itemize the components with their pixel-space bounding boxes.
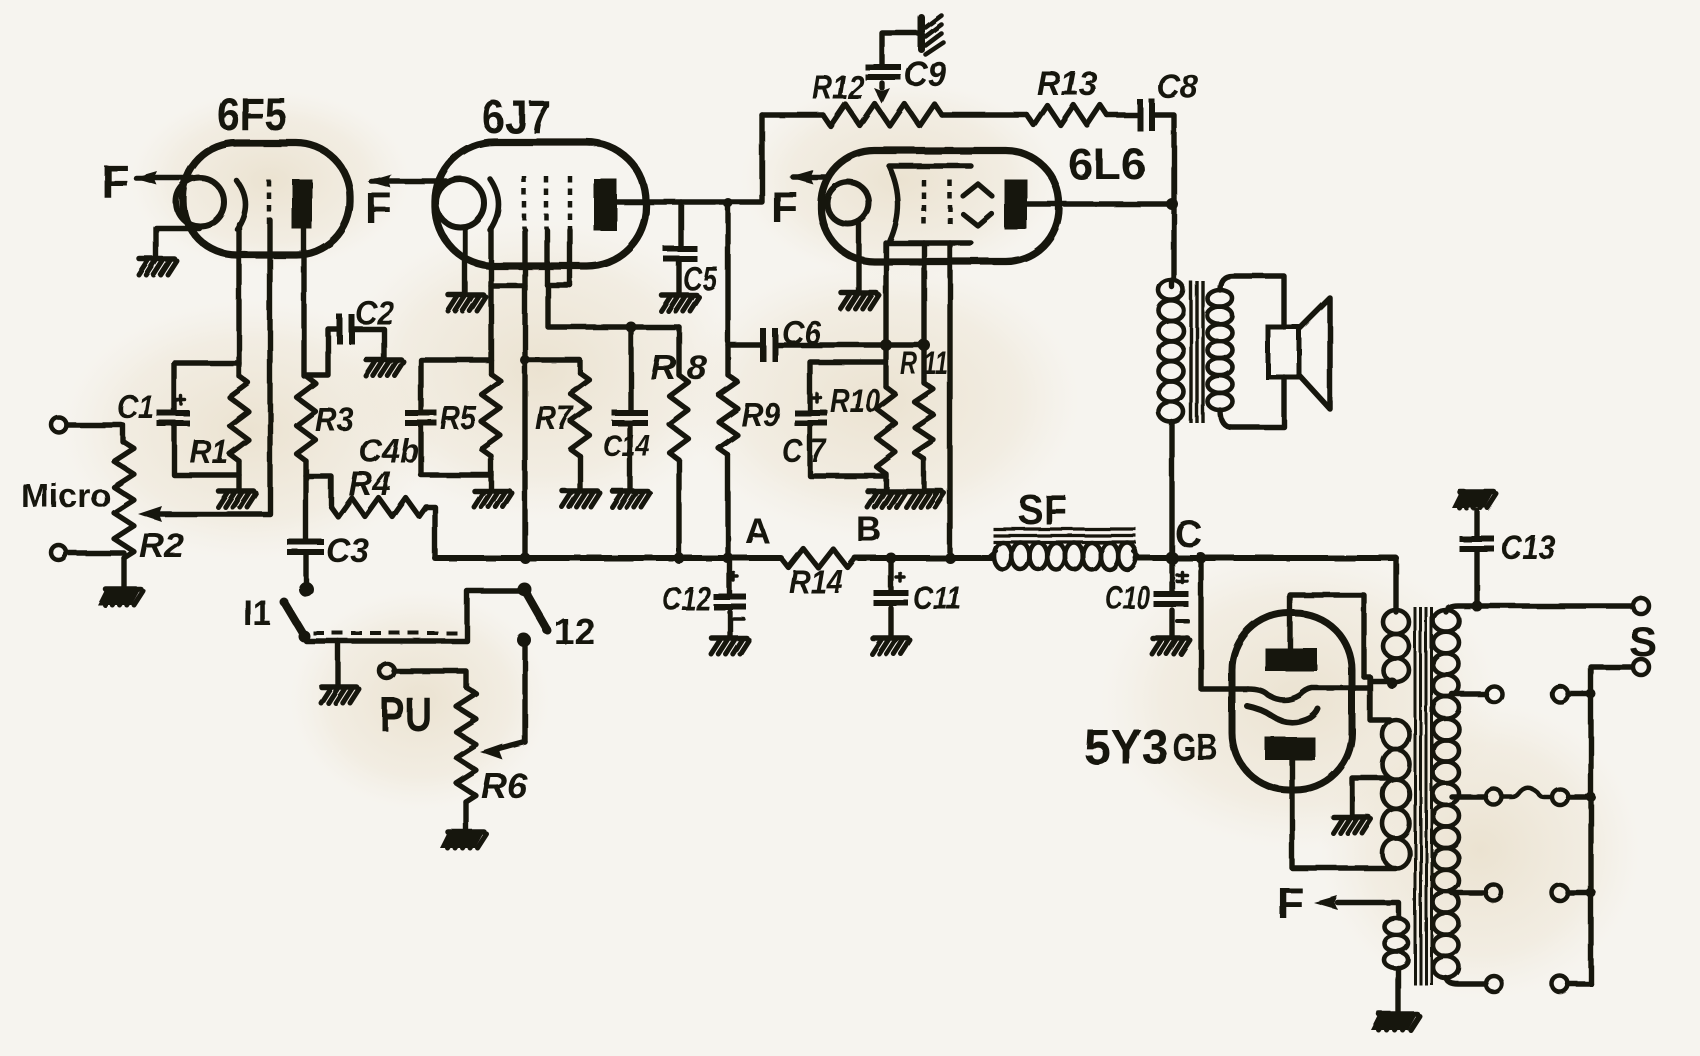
label C2 <box>355 294 395 331</box>
ground (R10) <box>867 491 905 507</box>
tube 5Y3 filament <box>1248 688 1352 700</box>
tube 6J7 plate <box>594 179 617 231</box>
node I2 pivot <box>517 582 531 596</box>
wire PU to R6 <box>394 671 466 687</box>
wire I1 to I2 <box>306 591 519 641</box>
transformer OT secondary <box>1208 290 1233 410</box>
wire R10-C7 box bottom <box>810 426 886 476</box>
label I1 <box>243 592 271 633</box>
resistor R3 <box>297 376 316 461</box>
wire R11 to ground <box>921 459 926 490</box>
wire 6L6 plate line <box>1026 198 1178 210</box>
label SF <box>1018 486 1067 533</box>
svg-text:12: 12 <box>554 611 595 652</box>
minus mark C12 <box>734 617 744 621</box>
switch S terminal bottom <box>1633 659 1649 675</box>
wire HV center tap <box>1352 778 1388 816</box>
wire C9 top to ground <box>882 33 918 64</box>
ground (I1) <box>321 687 359 703</box>
resistor R4 <box>331 498 426 517</box>
speaker driver <box>1268 327 1299 377</box>
ground (C9 top) <box>921 15 943 54</box>
wire R7 feed <box>520 355 580 373</box>
ground (C5) <box>661 295 699 311</box>
resistor R1 <box>230 376 249 461</box>
wire 6L6 g2 down <box>921 243 926 383</box>
label C12 <box>662 580 712 617</box>
wire C9 to R12 wiper <box>874 83 890 104</box>
resistor R5 <box>482 374 501 456</box>
svg-text:C: C <box>1175 514 1202 556</box>
ground (C12) <box>711 638 749 654</box>
ground (C14) <box>612 491 650 507</box>
label R9 <box>741 396 781 433</box>
wire PT 5V top <box>1393 558 1398 612</box>
label 6J7 <box>482 91 551 143</box>
label C10 <box>1105 579 1150 616</box>
resistor R11 <box>915 383 934 459</box>
wire micro top to R2 <box>67 425 123 442</box>
wire S bottom to tap bus <box>1591 667 1632 984</box>
wire R8 to bus <box>676 460 681 558</box>
wire R2 wiper to 6F5 grid <box>138 506 270 522</box>
label S <box>1629 618 1657 665</box>
svg-text:C11: C11 <box>913 579 961 616</box>
tube 5Y3 plate bottom <box>1265 737 1315 760</box>
wire C10 stub <box>1169 558 1174 637</box>
label R4 <box>348 465 391 503</box>
node I1 contact <box>299 582 314 597</box>
ground (R6) <box>440 832 487 848</box>
wire R5 box top <box>421 360 491 410</box>
node Micro terminal top <box>52 418 67 433</box>
wire OT primary bottom <box>1169 422 1174 558</box>
ground (C2) <box>366 360 404 376</box>
svg-text:F: F <box>365 184 392 233</box>
label R8 <box>650 349 707 387</box>
svg-text:B: B <box>856 510 881 549</box>
wire R1-C1 box top <box>174 363 239 410</box>
label R14 <box>789 563 843 600</box>
wire R4 to bus <box>426 507 435 557</box>
node tap 4 terminal <box>1486 885 1502 901</box>
wire 6J7 pin4 <box>544 230 549 285</box>
ground (R2) <box>98 589 144 605</box>
label C3 <box>326 532 369 570</box>
node tap 2 terminal <box>1486 686 1502 702</box>
wire C14 stem <box>628 327 633 410</box>
svg-text:C9: C9 <box>904 55 946 94</box>
tube 6F5 grid (dashed) <box>267 180 272 224</box>
wire R9 to bus <box>725 455 730 558</box>
label R7 <box>535 399 574 436</box>
wire C5 stem <box>678 202 683 246</box>
wire 6J7 pin3 down (to I2) <box>522 230 527 558</box>
wire tap 2 <box>1452 691 1486 696</box>
wire C6 left <box>728 342 761 347</box>
label F (6L6) <box>771 183 798 232</box>
label I2 <box>554 611 595 652</box>
tube 6L6 beam electrode top <box>963 184 992 196</box>
resistor R14 <box>781 549 855 568</box>
switch I2 arm <box>524 589 552 635</box>
capacitor C3 <box>287 539 324 555</box>
tube 6J7 grid3 (dashed) <box>568 176 573 229</box>
node screen junction <box>626 322 637 333</box>
wire 6L6 cathode ground <box>856 224 861 292</box>
wire R2 to ground <box>121 558 126 588</box>
label C11 <box>913 579 961 616</box>
node tap-C13 junction <box>1472 601 1483 612</box>
capacitor C8 <box>1137 99 1155 131</box>
label F (6J7) <box>365 184 392 233</box>
ground (6J7 cathode) <box>448 295 486 311</box>
svg-text:Micro: Micro <box>21 477 111 514</box>
tube 6J7 cathode-circle <box>436 179 484 227</box>
svg-text:R7: R7 <box>535 399 574 436</box>
label R6 <box>481 767 528 806</box>
svg-text:R 8: R 8 <box>650 349 707 387</box>
svg-text:GB: GB <box>1172 727 1218 769</box>
wire C8 to plate line <box>1155 115 1174 280</box>
wire R9 riser <box>723 198 733 375</box>
ground (C10) <box>1152 638 1190 654</box>
tube 6L6 envelope <box>821 151 1059 262</box>
wire C6 right <box>777 342 924 347</box>
svg-text:6F5: 6F5 <box>217 88 287 140</box>
svg-text:SF: SF <box>1018 486 1067 533</box>
wire micro bottom to R2 <box>67 550 124 555</box>
tube 6L6 cathode-circle <box>827 182 869 224</box>
label C7 <box>782 432 827 469</box>
svg-text:R12: R12 <box>812 69 864 107</box>
wire R7 to ground <box>577 456 582 490</box>
wire F arrow 6L6 <box>789 170 826 184</box>
wire C11 stub <box>888 558 893 637</box>
transformer PT winding 5V <box>1383 610 1409 682</box>
plus mark C1 <box>177 396 185 404</box>
wire R12-R13 <box>942 112 1027 117</box>
wire tap 3b link <box>1568 792 1596 802</box>
capacitor C1 <box>157 410 190 426</box>
wire 6J7 pin5 <box>567 230 572 285</box>
wire PT 6V bottom to ground <box>1395 968 1400 1013</box>
resistor R8 <box>670 375 689 460</box>
plus-minus mark C10 <box>1177 572 1187 582</box>
svg-text:C13: C13 <box>1501 529 1555 567</box>
transformer PT winding 6V <box>1384 918 1408 968</box>
wire C3 down <box>303 555 308 582</box>
capacitor C9 <box>865 64 901 80</box>
wire C12 stub <box>727 558 732 637</box>
tube 6J7 grid1 (dashed) <box>522 176 527 229</box>
wire R1-C1 box bottom <box>174 426 239 475</box>
tube 6F5 cathode-circle <box>176 178 224 226</box>
label 5Y3 <box>1084 719 1168 775</box>
wire F arrow 6F5 <box>133 171 193 185</box>
svg-text:R13: R13 <box>1037 65 1097 103</box>
wire 6F5 grid down <box>267 220 272 513</box>
svg-text:5Y3: 5Y3 <box>1084 719 1168 775</box>
wire bus C <box>1136 552 1396 565</box>
svg-text:R10: R10 <box>830 382 881 419</box>
capacitor C14 <box>612 410 648 426</box>
tube 5Y3 envelope <box>1232 613 1352 790</box>
label R1 <box>190 433 228 470</box>
node C <box>1175 514 1202 556</box>
node I2 contact <box>517 633 531 647</box>
ground (R1) <box>218 491 256 507</box>
wire to R12 <box>762 112 823 117</box>
ground (PT bottom) <box>1371 1014 1420 1030</box>
svg-text:R 11: R 11 <box>900 345 948 381</box>
svg-text:A: A <box>745 512 770 551</box>
wire bus B <box>855 553 992 564</box>
label C9 <box>904 55 946 94</box>
fuse (tap 3) <box>1503 788 1551 797</box>
svg-text:C8: C8 <box>1157 68 1198 106</box>
wire tap 5b link <box>1568 981 1591 986</box>
ground (6L6 cathode) <box>841 293 879 309</box>
wire 6F5 cathode down <box>236 224 241 376</box>
tube 5Y3 plate top <box>1265 648 1317 671</box>
resistor R13 <box>1027 105 1107 125</box>
node tap 2b terminal <box>1552 686 1568 702</box>
wire 6J7 pins link2 <box>547 282 570 287</box>
wire 6F5 plate down <box>301 226 306 376</box>
wire F arrow (heater) <box>1314 896 1399 918</box>
node g2-R11 junction <box>918 339 930 351</box>
wire I2 to R6 wiper <box>480 742 525 760</box>
wire C14 to ground <box>627 426 632 490</box>
label R11 <box>900 345 948 381</box>
switch I1 arm <box>280 598 311 643</box>
label C5 <box>683 260 718 297</box>
tube 6F5 cathode arc <box>237 181 246 229</box>
svg-text:C3: C3 <box>326 532 369 570</box>
svg-text:C12: C12 <box>662 580 712 617</box>
transformer PT core <box>1415 607 1432 985</box>
label R5 <box>440 399 477 436</box>
capacitor C6 <box>760 328 778 362</box>
wire 6J7 cathode-circle ground <box>462 228 467 294</box>
wire tap top <box>1446 606 1632 612</box>
tube 6L6 cathode arc / beam box <box>889 166 971 243</box>
tube 6L6 grid2 (dashed) <box>948 180 953 228</box>
svg-text:6J7: 6J7 <box>482 91 551 143</box>
label F (6F5 filament) <box>101 155 129 207</box>
label R12 <box>812 69 864 107</box>
resistor R10 <box>877 387 896 474</box>
ground (HV center tap) <box>1333 817 1371 833</box>
transformer OT primary <box>1159 280 1184 422</box>
resistor R12 (pot) <box>823 104 942 126</box>
wire OT secondary top <box>1220 276 1284 327</box>
label R13 <box>1037 65 1097 103</box>
node tap 4b terminal <box>1552 885 1568 901</box>
transformer PT secondary <box>1433 610 1459 978</box>
ground (R11) <box>906 491 944 507</box>
wire C13 stem <box>1474 511 1479 606</box>
wire 6J7 plate line <box>615 115 762 202</box>
wire R5 to ground <box>488 456 493 490</box>
wire R10-C7 box top <box>810 362 886 410</box>
inductor SF core <box>993 529 1136 542</box>
svg-text:C14: C14 <box>603 428 650 463</box>
wire R13 to C8 <box>1107 112 1137 117</box>
svg-text:R5: R5 <box>440 399 477 436</box>
capacitor C10 <box>1154 591 1189 607</box>
inductor SF winding <box>988 543 1140 570</box>
wire R8 top <box>676 327 681 375</box>
label Micro <box>21 477 111 514</box>
node B <box>856 510 881 549</box>
ground (C11) <box>872 638 910 654</box>
node tap 5 terminal <box>1486 976 1502 992</box>
plus mark C7 <box>813 394 821 402</box>
svg-text:6L6: 6L6 <box>1068 140 1146 189</box>
wire F arrow 6J7 <box>367 174 446 188</box>
plus mark C11 <box>896 573 904 581</box>
label C8 <box>1157 68 1198 106</box>
tube 6L6 grid1 (dashed) <box>922 180 927 228</box>
label C1 <box>117 388 154 425</box>
label C4b <box>359 432 419 469</box>
wire tap 4b link <box>1568 888 1596 898</box>
tube 6J7 grid2 (dashed) <box>544 176 549 229</box>
wire 5Y3 top plate loop <box>1290 595 1364 677</box>
wire 5Y3 bottom plate <box>1292 760 1395 868</box>
wire link to ground <box>335 641 340 686</box>
tube 6L6 beam electrode bottom <box>963 214 992 226</box>
node A <box>745 512 770 551</box>
wire 6J7 pins link1 <box>491 283 525 288</box>
ground (R7) <box>562 491 600 507</box>
svg-text:F: F <box>1277 879 1304 928</box>
label R2 <box>139 527 184 565</box>
wire C5 to ground <box>676 262 681 294</box>
label F (heater) <box>1277 879 1304 928</box>
resistor R7 <box>571 373 590 456</box>
wire 6F5 cathode-circle to ground <box>156 228 199 258</box>
wire tap 3 <box>1452 794 1486 799</box>
wire OT primary top <box>1169 280 1174 287</box>
svg-text:R3: R3 <box>315 401 354 438</box>
wire 5Y3 filament right <box>1352 677 1398 720</box>
label R10 <box>830 382 881 419</box>
label PU <box>380 689 432 742</box>
minus mark C10 <box>1177 619 1188 623</box>
node PU terminal <box>380 664 395 679</box>
wire R5 box bottom <box>421 426 491 475</box>
speaker horn <box>1299 298 1330 409</box>
node Micro terminal bottom <box>52 546 67 561</box>
node g1-C6 junction <box>880 339 892 351</box>
resistor R9 <box>719 375 738 455</box>
wire C2 to ground <box>353 329 384 359</box>
label 6F5 <box>217 88 287 140</box>
mechanical link (dashed) <box>313 631 462 635</box>
wire bus to 5Y3 filament <box>1201 558 1248 689</box>
capacitor C5 <box>664 246 698 262</box>
label C14 <box>603 428 650 463</box>
wire tap 2b link <box>1568 689 1596 699</box>
svg-text:C5: C5 <box>683 260 718 297</box>
wire R3 to R4 <box>306 476 331 505</box>
svg-text:C4b: C4b <box>359 432 419 469</box>
svg-text:C10: C10 <box>1105 579 1150 616</box>
capacitor C12 <box>714 594 747 610</box>
capacitor C11 <box>874 590 909 606</box>
tube 6J7 envelope <box>435 142 646 266</box>
wire tap bottom <box>1446 978 1486 984</box>
plus mark C12 <box>730 573 738 581</box>
svg-text:C2: C2 <box>355 294 395 331</box>
svg-text:I1: I1 <box>243 592 271 633</box>
tube 6L6 plate <box>1004 179 1027 229</box>
wire R6 to ground <box>463 802 468 831</box>
tube 6F5 envelope <box>183 143 350 255</box>
wire R3 top to C2 <box>305 329 338 375</box>
wire 6L6 g1 down <box>883 243 888 387</box>
resistor R2 (potentiometer) <box>114 442 134 558</box>
svg-text:C1: C1 <box>117 388 154 425</box>
svg-text:F: F <box>101 155 129 207</box>
capacitor C13 <box>1460 536 1495 552</box>
wire R10 to ground <box>883 474 888 490</box>
label 6L6 <box>1068 140 1146 189</box>
wire tap 4 <box>1452 890 1486 895</box>
capacitor C7 <box>795 410 828 426</box>
ground (6F5 envelope) <box>139 259 177 275</box>
capacitor C4b <box>405 410 437 426</box>
svg-text:R6: R6 <box>481 767 528 806</box>
wire bus A-left <box>435 553 781 564</box>
transformer PT winding HV <box>1383 720 1410 868</box>
ground (C13 top) <box>1452 492 1497 508</box>
svg-text:R14: R14 <box>789 563 843 600</box>
tube 5Y3 cathode arc <box>1247 706 1318 723</box>
svg-text:R4: R4 <box>348 465 391 503</box>
wire 6J7 pin2 down <box>488 228 493 374</box>
svg-text:R2: R2 <box>139 527 184 565</box>
resistor R6 (potentiometer) <box>456 687 476 802</box>
label GB <box>1172 727 1218 769</box>
node tap 3b terminal <box>1552 789 1568 805</box>
svg-text:R9: R9 <box>741 396 781 433</box>
transformer OT core <box>1191 281 1203 423</box>
node tap 3 terminal <box>1486 789 1502 805</box>
ground (R5) <box>474 491 512 507</box>
svg-text:PU: PU <box>380 689 432 742</box>
node tap 5b terminal <box>1552 976 1568 992</box>
switch S terminal top <box>1633 598 1649 614</box>
svg-text:C 7: C 7 <box>782 432 827 469</box>
svg-text:R1: R1 <box>190 433 228 470</box>
wire OT secondary bottom <box>1220 377 1284 427</box>
label R3 <box>315 401 354 438</box>
wire R3 bottom junction <box>303 461 308 540</box>
capacitor C2 <box>337 314 355 344</box>
tube 6F5 plate <box>292 179 312 229</box>
wire 6L6 g3 down to bus <box>945 243 956 564</box>
label C13 <box>1501 529 1555 567</box>
wire R1 to ground <box>236 461 241 490</box>
svg-text:F: F <box>771 183 798 232</box>
label C6 <box>782 314 822 351</box>
tube 6J7 cathode arc <box>490 179 499 230</box>
wire screen feed <box>548 285 679 327</box>
